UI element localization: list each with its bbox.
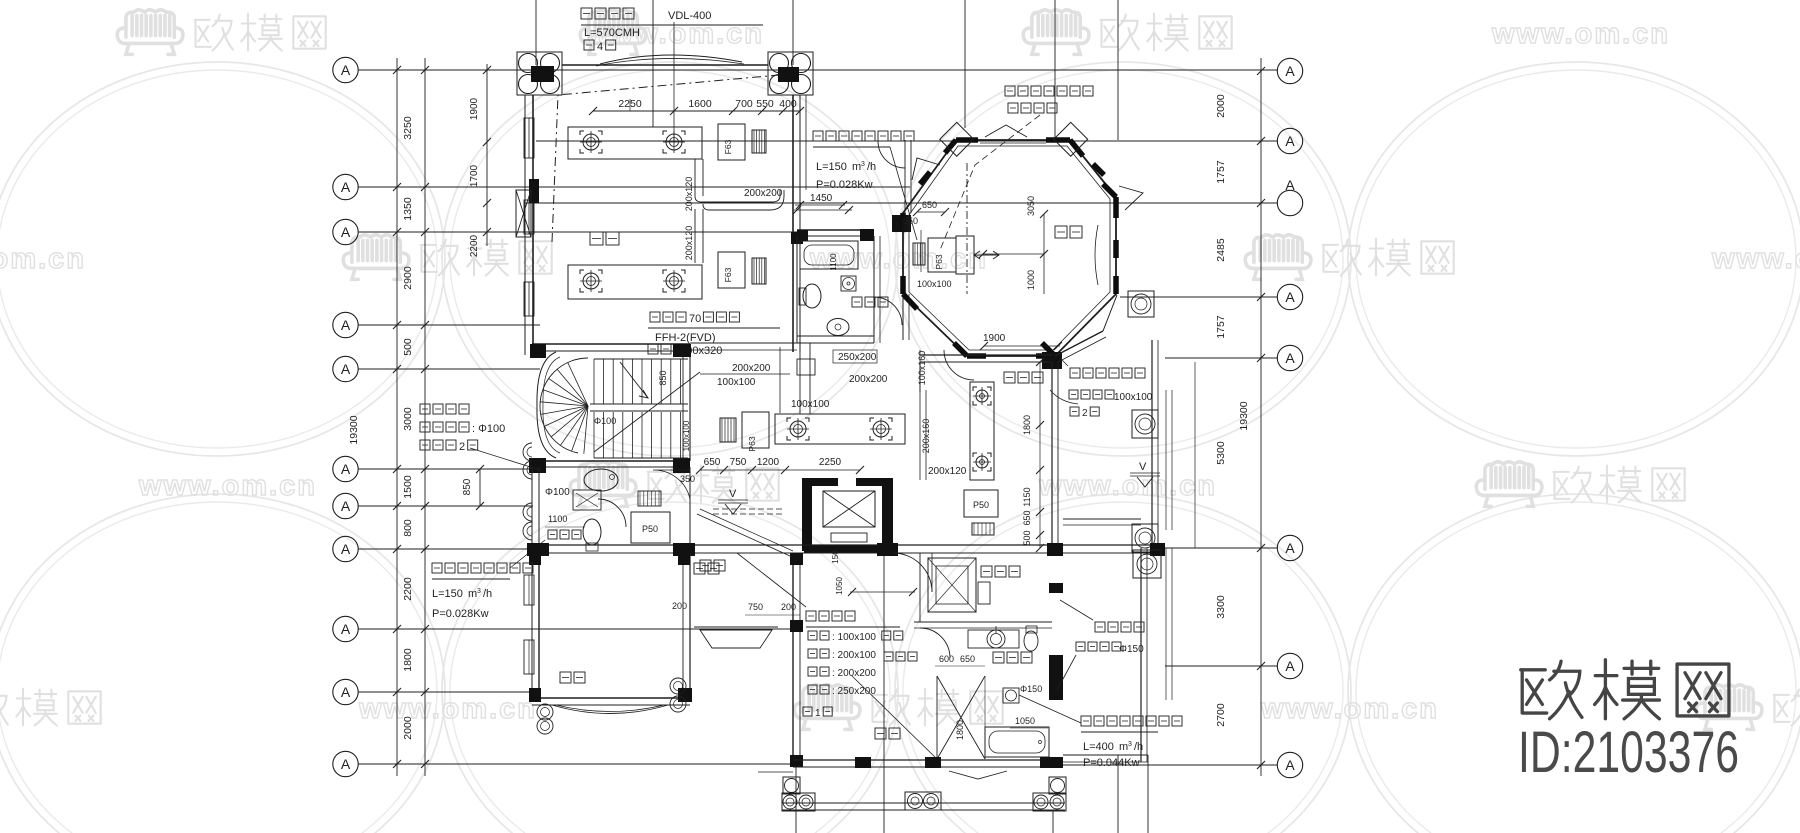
svg-text:3: 3 bbox=[1128, 741, 1132, 748]
svg-text:3300: 3300 bbox=[1215, 595, 1227, 619]
svg-text:P=0.028Kw: P=0.028Kw bbox=[432, 608, 489, 620]
svg-text:200: 200 bbox=[781, 602, 796, 612]
svg-text:/h: /h bbox=[1134, 741, 1143, 753]
svg-text:m: m bbox=[852, 161, 861, 173]
svg-text:200x120: 200x120 bbox=[928, 466, 967, 477]
svg-text:1000: 1000 bbox=[1026, 270, 1036, 290]
svg-text:100x100: 100x100 bbox=[791, 399, 830, 410]
svg-text:1150: 1150 bbox=[1022, 487, 1032, 506]
svg-text:1100: 1100 bbox=[548, 514, 567, 524]
svg-text:5300: 5300 bbox=[1215, 441, 1227, 465]
svg-text:V: V bbox=[729, 488, 737, 500]
svg-text:850: 850 bbox=[462, 478, 473, 495]
svg-text:A: A bbox=[341, 461, 351, 477]
svg-text:P=0.044Kw: P=0.044Kw bbox=[1083, 757, 1140, 769]
svg-text:Φ100: Φ100 bbox=[594, 416, 616, 426]
svg-text:A: A bbox=[341, 317, 351, 333]
svg-text:950: 950 bbox=[901, 219, 910, 233]
svg-text:1200: 1200 bbox=[757, 457, 780, 468]
svg-text:1757: 1757 bbox=[1215, 315, 1227, 339]
svg-text:www.om.cn: www.om.cn bbox=[138, 470, 317, 502]
svg-text:750: 750 bbox=[730, 457, 747, 468]
svg-text:2485: 2485 bbox=[1215, 238, 1227, 262]
svg-text:1600: 1600 bbox=[688, 98, 712, 110]
svg-text:200x200: 200x200 bbox=[732, 363, 771, 374]
svg-text:Φ100: Φ100 bbox=[545, 487, 570, 498]
svg-text:100x100: 100x100 bbox=[1114, 392, 1153, 403]
svg-text:A: A bbox=[1285, 757, 1295, 773]
svg-text:A: A bbox=[341, 684, 351, 700]
svg-text:1050: 1050 bbox=[1015, 716, 1035, 726]
svg-text:A: A bbox=[341, 62, 351, 78]
svg-text:Φ150: Φ150 bbox=[1119, 644, 1144, 655]
svg-text:2250: 2250 bbox=[819, 457, 842, 468]
svg-text:A: A bbox=[1285, 350, 1295, 366]
svg-text:350: 350 bbox=[680, 474, 695, 484]
svg-text:2200: 2200 bbox=[469, 234, 480, 257]
svg-text:4: 4 bbox=[597, 41, 603, 53]
svg-text:650: 650 bbox=[1022, 510, 1032, 525]
svg-text:P50: P50 bbox=[642, 524, 658, 534]
svg-text:1700: 1700 bbox=[469, 164, 480, 187]
svg-text:650: 650 bbox=[960, 654, 975, 664]
svg-text:1500: 1500 bbox=[402, 475, 414, 499]
svg-text:A: A bbox=[1285, 63, 1295, 79]
svg-text:A: A bbox=[1285, 540, 1295, 556]
svg-text:850: 850 bbox=[658, 370, 668, 385]
svg-text:: 200x200: : 200x200 bbox=[832, 668, 876, 679]
svg-text:700: 700 bbox=[735, 98, 753, 110]
svg-text:A: A bbox=[1285, 658, 1295, 674]
svg-text:ID:2103376: ID:2103376 bbox=[1518, 720, 1739, 785]
svg-text:www.om.cn: www.om.cn bbox=[1711, 243, 1800, 275]
svg-text:19300: 19300 bbox=[1238, 401, 1250, 430]
svg-text:P63: P63 bbox=[747, 436, 757, 451]
svg-text:A: A bbox=[341, 498, 351, 514]
svg-text:2: 2 bbox=[459, 441, 465, 453]
svg-text:www.om.cn: www.om.cn bbox=[1038, 470, 1217, 502]
svg-text:100x160: 100x160 bbox=[917, 351, 927, 386]
svg-text:P=0.028Kw: P=0.028Kw bbox=[816, 179, 873, 191]
svg-text:P63: P63 bbox=[934, 254, 944, 269]
svg-text:2000: 2000 bbox=[1215, 94, 1227, 118]
svg-text:FFH-2(FVD): FFH-2(FVD) bbox=[655, 332, 716, 344]
svg-text:100x100: 100x100 bbox=[717, 377, 756, 388]
svg-text:70: 70 bbox=[689, 313, 701, 325]
svg-text:200x120: 200x120 bbox=[684, 226, 694, 261]
svg-text:1: 1 bbox=[815, 708, 821, 719]
svg-text:200x120: 200x120 bbox=[684, 177, 694, 212]
svg-text:A: A bbox=[341, 224, 351, 240]
svg-text:250x200: 250x200 bbox=[838, 352, 877, 363]
svg-text:F63: F63 bbox=[723, 139, 733, 154]
svg-text:www.om.cn: www.om.cn bbox=[358, 693, 537, 725]
svg-text:2200: 2200 bbox=[402, 577, 414, 601]
svg-text:3250: 3250 bbox=[402, 116, 414, 140]
svg-text:800: 800 bbox=[402, 519, 414, 537]
svg-text:2: 2 bbox=[1082, 408, 1088, 419]
svg-text:200: 200 bbox=[672, 601, 687, 611]
svg-text:1450: 1450 bbox=[810, 193, 833, 204]
svg-text:500: 500 bbox=[1022, 530, 1032, 545]
svg-text:1100: 1100 bbox=[829, 253, 838, 271]
svg-text:: Φ100: : Φ100 bbox=[472, 423, 505, 435]
svg-text:V: V bbox=[1139, 461, 1147, 473]
svg-text:: 200x100: : 200x100 bbox=[832, 650, 876, 661]
svg-text:A: A bbox=[1285, 289, 1295, 305]
svg-text:150: 150 bbox=[831, 550, 840, 564]
svg-text:A: A bbox=[1285, 177, 1295, 193]
svg-text:A: A bbox=[341, 179, 351, 195]
svg-text:www.om.cn: www.om.cn bbox=[1491, 18, 1670, 50]
svg-text:www.om.cn: www.om.cn bbox=[1260, 693, 1439, 725]
svg-text:F63: F63 bbox=[723, 267, 733, 282]
svg-text:1757: 1757 bbox=[1215, 160, 1227, 184]
svg-text:200x200: 200x200 bbox=[849, 374, 888, 385]
svg-text:L=570CMH: L=570CMH bbox=[584, 27, 640, 39]
svg-text:2700: 2700 bbox=[1215, 703, 1227, 727]
svg-text:1350: 1350 bbox=[402, 197, 414, 221]
svg-text:650: 650 bbox=[704, 457, 721, 468]
svg-text:100x100: 100x100 bbox=[682, 420, 691, 451]
svg-text:2900: 2900 bbox=[402, 266, 414, 290]
svg-text:3050: 3050 bbox=[1026, 196, 1036, 216]
svg-text:1050: 1050 bbox=[835, 577, 844, 595]
svg-text:400: 400 bbox=[779, 98, 797, 110]
svg-text:Φ150: Φ150 bbox=[1020, 684, 1042, 694]
svg-text:650: 650 bbox=[922, 200, 937, 210]
svg-text:550: 550 bbox=[756, 98, 774, 110]
svg-text:A: A bbox=[341, 621, 351, 637]
svg-text:100x100: 100x100 bbox=[917, 279, 952, 289]
svg-text:200x200: 200x200 bbox=[744, 188, 783, 199]
svg-text:A: A bbox=[1285, 133, 1295, 149]
svg-text:L=150: L=150 bbox=[432, 588, 463, 600]
svg-text:1900: 1900 bbox=[469, 97, 480, 120]
svg-text:A: A bbox=[341, 541, 351, 557]
svg-text:500: 500 bbox=[402, 338, 414, 356]
svg-text:L=400: L=400 bbox=[1083, 741, 1114, 753]
svg-text:2000: 2000 bbox=[402, 716, 414, 740]
svg-text:1800: 1800 bbox=[1022, 415, 1032, 435]
svg-text:3000: 3000 bbox=[402, 407, 414, 431]
svg-text:P50: P50 bbox=[973, 500, 989, 510]
svg-text:3: 3 bbox=[861, 161, 865, 168]
svg-text:A: A bbox=[341, 361, 351, 377]
svg-text:/h: /h bbox=[867, 161, 876, 173]
svg-text:/h: /h bbox=[483, 588, 492, 600]
svg-text:1800: 1800 bbox=[955, 720, 965, 740]
svg-text:1800: 1800 bbox=[402, 648, 414, 672]
svg-text:www.om.cn: www.om.cn bbox=[0, 243, 86, 275]
svg-text:VDL-400: VDL-400 bbox=[668, 10, 711, 22]
svg-text:: 100x100: : 100x100 bbox=[832, 632, 876, 643]
svg-text:3: 3 bbox=[477, 588, 481, 595]
svg-text:1900: 1900 bbox=[983, 333, 1006, 344]
svg-text:A: A bbox=[341, 756, 351, 772]
svg-text:750: 750 bbox=[748, 602, 763, 612]
svg-text:: 250x200: : 250x200 bbox=[832, 686, 876, 697]
svg-text:600: 600 bbox=[939, 654, 954, 664]
svg-text:m: m bbox=[468, 588, 477, 600]
svg-text:19300: 19300 bbox=[348, 415, 360, 444]
svg-text:m: m bbox=[1119, 741, 1128, 753]
svg-text:L=150: L=150 bbox=[816, 161, 847, 173]
